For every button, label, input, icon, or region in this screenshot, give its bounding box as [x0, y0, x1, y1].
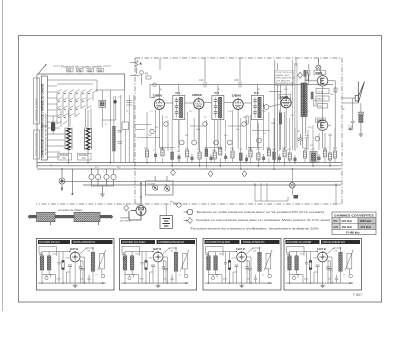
svg-text:35W4: 35W4 — [317, 119, 325, 123]
svg-text:COMMUTATEUR A POUSSOIR VU DE L: COMMUTATEUR A POUSSOIR VU DE L'ARRIERE D… — [42, 83, 45, 158]
svg-text:10n: 10n — [224, 135, 227, 137]
svg-text:12AT6: 12AT6 — [280, 95, 289, 99]
svg-text:Tensions en volts continus re: Tensions en volts continus relevé avec u… — [196, 210, 324, 214]
svg-text:GO: GO — [82, 158, 86, 160]
svg-text:1M: 1M — [297, 131, 300, 133]
svg-text:TONAL ATTEN PO: TONAL ATTEN PO — [243, 240, 265, 244]
svg-text:FI 3: FI 3 — [254, 91, 259, 95]
svg-text:ACCORD GO ALTER: ACCORD GO ALTER — [287, 240, 312, 244]
svg-text:LA PRISE: LA PRISE — [120, 217, 130, 220]
svg-text:F 867: F 867 — [353, 293, 362, 297]
svg-text:vue arrière du châssis: vue arrière du châssis — [58, 209, 83, 212]
svg-text:12BA6: 12BA6 — [232, 93, 242, 97]
svg-text:150 kHz: 150 kHz — [342, 225, 353, 229]
svg-text:ACCORD GO AVEC: ACCORD GO AVEC — [122, 240, 146, 244]
svg-text:Fonctionnement au maximum: Fonctionnement au maximum d'utilisation,… — [191, 226, 319, 230]
svg-text:C18: C18 — [234, 79, 239, 82]
svg-text:ACCORD PO-GO: ACCORD PO-GO — [39, 240, 60, 244]
svg-text:POUR TOUTE LA: POUR TOUTE LA — [276, 71, 293, 74]
svg-text:SECTEUR: SECTEUR — [120, 220, 131, 222]
svg-text:22n: 22n — [236, 129, 239, 131]
svg-text:GAMMES COUVERTES: GAMMES COUVERTES — [334, 213, 374, 217]
svg-text:C22: C22 — [349, 126, 354, 129]
svg-text:ACCORD PO ALTER: ACCORD PO ALTER — [206, 240, 231, 244]
svg-text:VOLUME: VOLUME — [147, 184, 156, 186]
svg-text:MESUREES A VIDE: MESUREES A VIDE — [276, 82, 295, 85]
svg-text:PO GO FM PU PO GO FM PU PO G: PO GO FM PU PO GO FM PU PO GO FM — [46, 114, 48, 155]
svg-text:Position du noyau visible: Position du noyau visible — [61, 64, 102, 68]
svg-text:117V: 117V — [328, 135, 333, 137]
svg-text:1605 kHz: 1605 kHz — [360, 219, 373, 223]
svg-text:100k: 100k — [196, 129, 200, 131]
svg-text:BOBINE: BOBINE — [79, 155, 88, 157]
svg-text:FI 480 kHz: FI 480 kHz — [346, 231, 360, 235]
svg-text:CONDENSATEUR GO: CONDENSATEUR GO — [158, 240, 184, 244]
svg-text:C14: C14 — [199, 79, 204, 82]
svg-text:Courant en mA continus relevé: Courant en mA continus relevé avec un co… — [196, 218, 330, 222]
svg-text:OSCILLATEUR PO: OSCILLATEUR PO — [73, 240, 95, 244]
svg-text:OSCILLATEUR GO: OSCILLATEUR GO — [323, 240, 346, 244]
svg-text:520 kHz: 520 kHz — [342, 219, 353, 223]
svg-text:FI 1: FI 1 — [176, 91, 181, 95]
svg-text:117V. VALEURS: 117V. VALEURS — [276, 79, 291, 82]
svg-text:12BE6: 12BE6 — [153, 93, 163, 97]
svg-text:PO: PO — [63, 158, 67, 160]
svg-text:47k: 47k — [263, 133, 266, 135]
svg-text:POSITION CLAVIER: POSITION CLAVIER — [36, 98, 39, 120]
svg-text:BOBINE: BOBINE — [60, 155, 69, 157]
svg-text:CADRE INCORPORE: CADRE INCORPORE — [36, 133, 39, 157]
svg-text:GAMME, LA HT: GAMME, LA HT — [276, 74, 291, 77]
svg-text:270 kHz: 270 kHz — [361, 225, 372, 229]
svg-text:12BA6: 12BA6 — [192, 93, 202, 97]
svg-text:FI 2: FI 2 — [215, 91, 220, 95]
svg-text:100 pF: 100 pF — [317, 91, 324, 93]
svg-text:HAUT-P: HAUT-P — [317, 98, 325, 101]
